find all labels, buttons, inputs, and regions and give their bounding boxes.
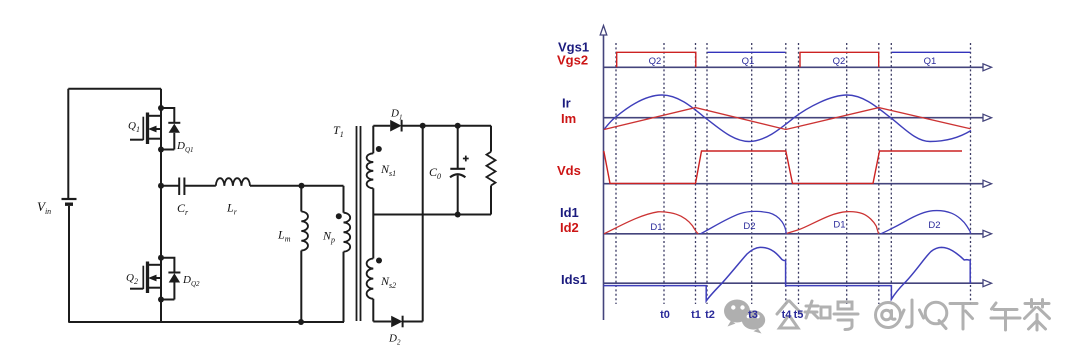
capacitor Cr bbox=[179, 178, 184, 196]
wire secondary bottom bbox=[373, 321, 391, 323]
svg-text:C0: C0 bbox=[429, 165, 441, 181]
waveform Id2 red rectifier pulse 1 bbox=[604, 212, 699, 234]
node Ns2 polarity dot bbox=[376, 258, 382, 264]
waveform Id1 blue rectifier pulse 2 bbox=[881, 211, 971, 234]
diode DQ2 bbox=[161, 258, 180, 300]
label C0 plus sign bbox=[463, 156, 469, 162]
wire Cr to Lr bbox=[184, 185, 215, 187]
wire output top rail bbox=[402, 125, 491, 127]
wire Lr to node bbox=[250, 185, 344, 187]
wire resonant branch bbox=[161, 185, 179, 187]
waveform Vgs2 red gate pulses bbox=[617, 52, 879, 67]
svg-text:Ns2: Ns2 bbox=[380, 274, 396, 290]
node Ns1 polarity dot bbox=[376, 146, 382, 152]
svg-text:D1: D1 bbox=[833, 220, 845, 231]
diode D1 bbox=[390, 120, 401, 132]
waveform Vgs1 blue gate pulses bbox=[708, 51, 971, 53]
wire top rail bbox=[68, 88, 161, 90]
wire bridge leg vertical bbox=[160, 89, 162, 322]
winding Ns1 secondary bbox=[367, 126, 374, 215]
svg-text:Q2: Q2 bbox=[649, 56, 662, 67]
waveform Vds drain voltage bbox=[604, 151, 962, 183]
svg-text:D2: D2 bbox=[388, 333, 401, 347]
waveform Ids1 switch current bbox=[604, 247, 971, 301]
svg-text:t2: t2 bbox=[705, 309, 715, 321]
svg-text:Vin: Vin bbox=[37, 199, 51, 216]
node Np polarity dot bbox=[336, 213, 342, 219]
svg-text:Id2: Id2 bbox=[560, 220, 579, 235]
node Lm top bbox=[299, 183, 305, 189]
svg-text:Ns1: Ns1 bbox=[380, 162, 396, 178]
wire left rail lower bbox=[68, 206, 70, 322]
winding Np primary bbox=[344, 186, 351, 322]
node Q2 source bbox=[158, 297, 164, 303]
waveform Ir resonant current sine bbox=[604, 95, 971, 142]
svg-text:DQ2: DQ2 bbox=[182, 274, 200, 288]
svg-text:D1: D1 bbox=[650, 222, 662, 233]
svg-text:t1: t1 bbox=[691, 309, 701, 321]
wire output bottom rail bbox=[373, 214, 491, 216]
node Q1 source bbox=[158, 147, 164, 153]
svg-text:Id1: Id1 bbox=[560, 205, 579, 220]
inductor Lr bbox=[216, 178, 250, 186]
svg-text:t0: t0 bbox=[660, 309, 670, 321]
node C0 bottom bbox=[455, 212, 461, 218]
capacitor C0 bbox=[450, 126, 465, 215]
svg-text:Lr: Lr bbox=[226, 201, 238, 217]
battery Vin bbox=[62, 199, 77, 204]
diode D2 bbox=[391, 316, 402, 328]
node Q1 drain bbox=[158, 105, 164, 111]
svg-text:Q1: Q1 bbox=[128, 120, 140, 134]
svg-text:Q2: Q2 bbox=[126, 272, 138, 286]
svg-text:D2: D2 bbox=[743, 221, 755, 232]
node Q2 drain bbox=[158, 255, 164, 261]
svg-text:T1: T1 bbox=[333, 123, 344, 139]
waveform Im magnetizing current bbox=[604, 108, 971, 130]
node Lm bottom bbox=[298, 319, 304, 325]
svg-text:Vds: Vds bbox=[557, 163, 581, 178]
node C0 top bbox=[455, 123, 461, 129]
diode DQ1 bbox=[161, 108, 180, 150]
svg-text:Im: Im bbox=[561, 111, 576, 126]
transformer T1 core bbox=[357, 126, 361, 321]
svg-text:Cr: Cr bbox=[177, 201, 189, 217]
node midpoint bbox=[158, 183, 164, 189]
resistor load bbox=[487, 126, 496, 215]
svg-text:Q2: Q2 bbox=[833, 56, 846, 67]
inductor Lm bbox=[301, 186, 308, 322]
wire left rail upper bbox=[67, 89, 69, 199]
waveform Id1 blue rectifier pulse 1 bbox=[701, 211, 787, 233]
wire rectifier link vertical bbox=[422, 126, 424, 322]
svg-text:Ir: Ir bbox=[562, 96, 571, 111]
svg-text:Np: Np bbox=[322, 229, 335, 245]
winding Ns2 secondary bbox=[367, 215, 374, 322]
svg-text:D2: D2 bbox=[928, 220, 940, 231]
svg-text:D1: D1 bbox=[390, 108, 402, 122]
axes bbox=[604, 30, 984, 320]
wire bottom rail bbox=[68, 321, 344, 323]
node rectifier output bbox=[420, 123, 426, 129]
svg-text:Vgs2: Vgs2 bbox=[557, 53, 588, 68]
grid dotted time lines bbox=[616, 43, 971, 304]
svg-text:t4: t4 bbox=[782, 309, 793, 321]
svg-text:t3: t3 bbox=[748, 309, 758, 321]
transistor Q1 bbox=[130, 113, 161, 145]
waveform Id2 red rectifier pulse 2 bbox=[787, 212, 879, 234]
wire D2 to link bbox=[403, 321, 423, 323]
transistor Q2 bbox=[130, 262, 161, 294]
svg-text:Q1: Q1 bbox=[742, 56, 755, 67]
svg-text:DQ1: DQ1 bbox=[176, 140, 194, 154]
svg-text:Lm: Lm bbox=[277, 228, 291, 244]
svg-text:Ids1: Ids1 bbox=[561, 272, 587, 287]
svg-text:t5: t5 bbox=[794, 309, 804, 321]
svg-text:Q1: Q1 bbox=[924, 56, 937, 67]
wire secondary top bbox=[373, 125, 390, 127]
